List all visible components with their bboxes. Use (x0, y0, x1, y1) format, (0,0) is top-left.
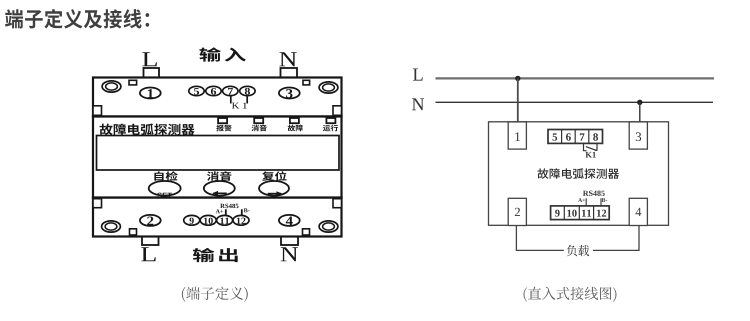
wire L to terminal 1 (517, 78, 519, 122)
label A+ (left) (216, 209, 223, 213)
terminal circle 2 (140, 215, 161, 226)
pin circle 10 (200, 215, 216, 225)
connector strip 5-8 outline (548, 130, 603, 144)
strip divider (593, 206, 595, 220)
strip divider (574, 130, 576, 144)
label RS485 (right) (583, 191, 605, 196)
strip pin 10 (567, 210, 576, 217)
pin circle 7 (223, 86, 238, 95)
label K1 (right) (586, 152, 596, 158)
label B- (right) (602, 198, 608, 202)
connector strip 9-12 outline (551, 206, 610, 220)
wire N (horizontal) (436, 101, 714, 103)
device name 故障电弧探测器 (right) (538, 168, 620, 179)
right-arrow under 复位 (269, 191, 283, 196)
label 输入 (input) (199, 47, 245, 61)
LED window 报警 (218, 118, 227, 123)
caption (端子定义) (182, 287, 248, 302)
strip pin 12 (597, 210, 606, 217)
pin circle 12 (233, 215, 249, 225)
junction dot on N (637, 100, 642, 105)
label L (input line) (142, 52, 157, 66)
device name 故障电弧探测器 (left) (100, 124, 195, 136)
label A+ (right) (578, 198, 585, 202)
pin circle 5 (189, 86, 204, 95)
terminal tab top-left (L in) (144, 68, 160, 78)
tick A+ to cell 11 (585, 198, 587, 206)
mounting hole bottom-right (319, 221, 338, 232)
K1 lead from pin 8 (246, 96, 248, 103)
tick B- to pin 12 (241, 210, 243, 215)
button label 消音 (207, 171, 231, 181)
label B- (left) (244, 208, 250, 212)
terminal circle 3 (279, 88, 300, 99)
LED window 故障 (290, 118, 299, 123)
terminal box 1 (508, 122, 526, 149)
notch top-band lower-left (93, 106, 102, 116)
terminal box 2 (508, 198, 526, 225)
button ellipse 复位 (259, 181, 289, 196)
notch bottom-band upper-right (333, 199, 342, 208)
LED label 故障 (288, 125, 303, 132)
caption (直入式接线图) (524, 287, 617, 302)
K1 lead from pin 7 (230, 96, 232, 103)
strip pin 9 (555, 210, 560, 217)
wire terminal 2 to load (516, 226, 563, 251)
switch K1 stub from 7 (584, 143, 587, 150)
LED label 报警 (216, 125, 231, 132)
switch K1 blade (586, 147, 597, 151)
label 负载 (load) (567, 245, 589, 256)
terminal box 4 (629, 198, 647, 225)
LED label 消音 (252, 125, 267, 132)
mounting hole top-left (102, 81, 121, 92)
detector box outline (right) (489, 122, 669, 226)
pin circle 9 (184, 215, 200, 225)
clip square bottom-right (303, 229, 310, 235)
label 输出 (output) (193, 248, 238, 262)
strip divider (588, 130, 590, 144)
LED window 消音 (254, 118, 263, 123)
switch K1 stub from 8 (595, 143, 598, 150)
display window (97, 136, 340, 171)
button sublabel SET (157, 193, 172, 198)
pin circle 11 (217, 215, 233, 225)
device enclosure outline (93, 78, 342, 237)
clip square top-left (129, 80, 137, 85)
divider top band (93, 115, 342, 117)
label K1 (left device) (232, 103, 247, 109)
title 端子定义及接线 (5, 9, 149, 29)
divider bottom band (93, 196, 342, 198)
left-arrow under 消音 (212, 191, 226, 196)
label L (supply line) (413, 69, 423, 81)
LED label 运行 (323, 125, 338, 132)
wire terminal 4 to load (593, 226, 639, 251)
notch top-band lower-right (333, 106, 342, 116)
strip divider (561, 130, 563, 144)
pin circle 8 (240, 86, 255, 95)
strip pin 5 (553, 133, 558, 140)
strip pin 11 (582, 210, 591, 217)
terminal box 3 (629, 122, 647, 149)
pin circle 6 (206, 86, 221, 95)
LED window 运行 (326, 118, 335, 123)
mounting hole bottom-left (102, 221, 121, 232)
wire N to terminal 3 (639, 102, 641, 122)
button ellipse 消音 (204, 181, 235, 196)
label RS485 (left) (220, 204, 238, 208)
terminal tab bottom-left (L out) (142, 237, 159, 245)
terminal tab bottom-right (N out) (281, 237, 298, 245)
button label 复位 (262, 171, 287, 181)
clip square top-right (303, 80, 310, 85)
strip divider (578, 206, 580, 220)
strip divider (563, 206, 565, 220)
junction dot on L (515, 76, 520, 81)
tick B- to cell 12 (600, 198, 602, 206)
button label 自检 (154, 171, 177, 181)
strip pin 6 (566, 133, 571, 140)
label N (output neutral) (281, 247, 298, 261)
tick A+ to pin 11 (225, 210, 227, 215)
strip pin 7 (580, 133, 585, 140)
wire L (horizontal) (436, 77, 715, 79)
strip pin 8 (593, 133, 598, 140)
mounting hole top-right (319, 82, 338, 93)
notch bottom-band upper-left (93, 199, 102, 208)
label N (supply neutral) (412, 98, 424, 110)
button ellipse 自检/SET (149, 181, 181, 196)
label N (input neutral) (279, 52, 296, 66)
terminal tab top-right (N in) (281, 68, 298, 78)
label L (output line) (141, 247, 156, 261)
terminal circle 1 (140, 88, 161, 99)
clip square bottom-left (130, 229, 137, 235)
terminal circle 4 (279, 215, 300, 226)
